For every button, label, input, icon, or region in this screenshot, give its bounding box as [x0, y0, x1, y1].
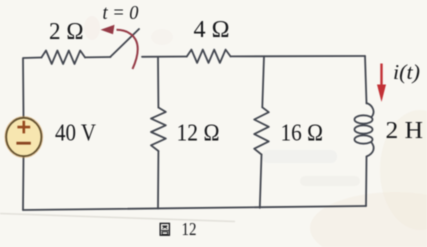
caption CJK glyph tu (figure) drawn	[160, 223, 169, 235]
svg-text:40 V: 40 V	[55, 120, 96, 147]
svg-text:i(t): i(t)	[393, 60, 420, 84]
voltage source VS body	[6, 118, 41, 156]
wire branch 12ohm bottom stub	[157, 151, 159, 209]
resistor R 12ohm zigzag	[151, 108, 166, 152]
resistor R 16ohm zigzag	[254, 107, 269, 154]
current arrow i(t) shaft	[380, 64, 382, 87]
voltage source VS outer ring	[5, 117, 42, 158]
resistor R 4ohm zigzag	[187, 50, 231, 63]
wire branch 12ohm top stub	[157, 57, 159, 107]
wire branch 16ohm top stub	[262, 56, 264, 107]
wire switch right contact to 4ohm	[142, 56, 187, 58]
inductor L loop3	[355, 135, 373, 143]
wire top right segment	[231, 55, 366, 57]
inductor L top lead	[367, 103, 374, 117]
scan tone patch bottom-right	[310, 192, 427, 247]
wire left vertical lower	[22, 156, 25, 210]
switch arrow head	[101, 25, 115, 34]
current arrow i(t) head	[377, 85, 386, 103]
resistor R 2ohm zigzag	[42, 51, 86, 65]
switch blade	[110, 29, 139, 57]
voltage source minus sign	[16, 142, 30, 145]
switch arrow curved (maroon)	[117, 30, 138, 69]
scan bleed-through ghosts	[262, 150, 337, 163]
svg-text:16 Ω: 16 Ω	[281, 120, 324, 147]
svg-text:12: 12	[182, 219, 197, 239]
svg-text:2 H: 2 H	[386, 117, 424, 144]
wire to switch left contact	[85, 56, 111, 58]
svg-text:4 Ω: 4 Ω	[194, 16, 230, 43]
wire top-left corner + left vertical upper	[23, 58, 42, 118]
inductor L loop1	[355, 115, 373, 123]
wire right vertical lower	[365, 157, 368, 207]
svg-text:2 Ω: 2 Ω	[49, 18, 84, 45]
inductor L loop2	[355, 125, 373, 133]
scan smudge pink near switch	[84, 16, 100, 40]
wire right vertical upper	[365, 56, 367, 104]
wire bottom	[23, 206, 366, 210]
inductor L bottom lead	[367, 143, 374, 157]
svg-text:12 Ω: 12 Ω	[177, 120, 220, 147]
wire branch 16ohm bottom stub	[260, 155, 262, 208]
voltage source plus sign	[17, 121, 30, 134]
svg-text:t = 0: t = 0	[103, 2, 139, 24]
scan smudge bottom-left	[0, 214, 235, 222]
